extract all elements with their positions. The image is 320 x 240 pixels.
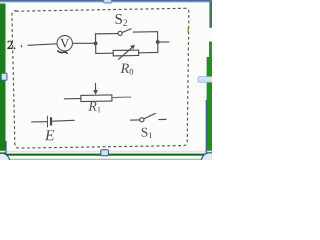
resistor R1 (slide rheostat box): [81, 95, 112, 102]
label R0: [120, 63, 133, 74]
voltmeter V: [57, 35, 73, 51]
wire (right lead of R1): [112, 96, 131, 99]
wire (output stub right): [158, 41, 169, 43]
problem number label "2.": [7, 41, 15, 49]
label S2: [115, 14, 127, 26]
wire (right lead of battery E): [52, 119, 74, 122]
wire (left lead to voltmeter): [28, 44, 57, 46]
wire (bottom branch, left node to R0): [96, 52, 113, 54]
wire (left lead of switch S1): [131, 119, 140, 121]
switch S1 (open knife switch: pivot and blade): [140, 113, 156, 122]
ink smudge under voltmeter: [58, 51, 67, 54]
label E: [45, 130, 55, 140]
label S1: [142, 128, 153, 139]
battery E (long negative plate and short thick positive plate): [47, 116, 51, 127]
tiny ink speck: [20, 45, 23, 46]
wire (left vertical of parallel block): [94, 34, 96, 54]
wire (right vertical of parallel block): [157, 32, 159, 53]
slider arrow above R1: [93, 83, 98, 94]
switch S2 (open knife switch: pivot and blade): [118, 29, 131, 36]
wire (right lead of switch S1): [159, 118, 166, 120]
node (right junction): [156, 40, 160, 44]
label R1: [88, 102, 101, 113]
wire (top branch, left node to switch S2): [95, 33, 117, 35]
wire (top branch, switch S2 to right node): [133, 31, 157, 33]
wire (left lead of R1): [64, 98, 81, 100]
node (left junction): [94, 41, 98, 45]
wire (voltmeter to left node): [73, 42, 96, 45]
wire (bottom branch, R0 to right node): [139, 51, 158, 53]
resistor R0 (rheostat box with diagonal arrow): [113, 45, 139, 60]
wire (left lead of battery E): [32, 121, 47, 123]
